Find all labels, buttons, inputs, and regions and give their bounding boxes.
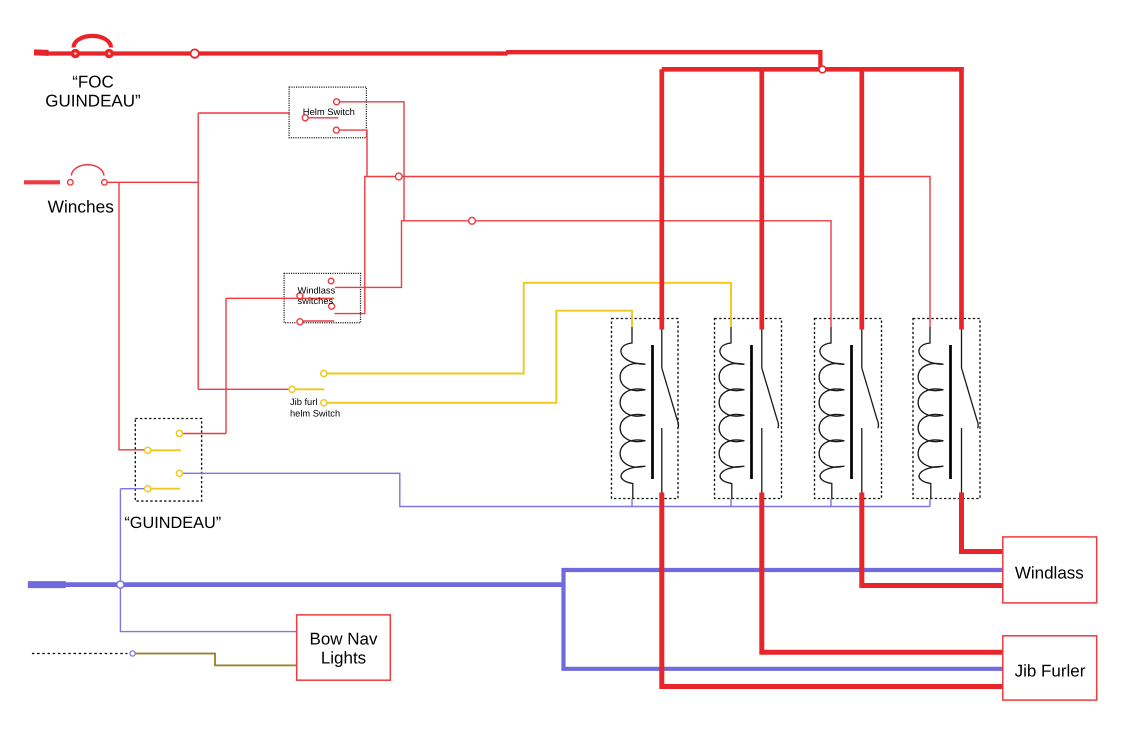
svg-text:“FOC: “FOC <box>72 73 114 92</box>
svg-text:Bow Nav: Bow Nav <box>309 630 378 649</box>
svg-text:Jib Furler: Jib Furler <box>1015 662 1086 681</box>
svg-text:Windlass: Windlass <box>298 286 336 296</box>
svg-text:Windlass: Windlass <box>1015 564 1084 583</box>
svg-text:GUINDEAU”: GUINDEAU” <box>45 92 141 111</box>
svg-text:Helm Switch: Helm Switch <box>303 106 355 117</box>
svg-text:Jib furl: Jib furl <box>290 397 317 407</box>
svg-text:helm Switch: helm Switch <box>290 408 340 418</box>
svg-text:Lights: Lights <box>321 649 366 668</box>
svg-text:“GUINDEAU”: “GUINDEAU” <box>124 514 221 532</box>
svg-text:Winches: Winches <box>48 197 115 217</box>
svg-text:switches: switches <box>298 296 334 306</box>
